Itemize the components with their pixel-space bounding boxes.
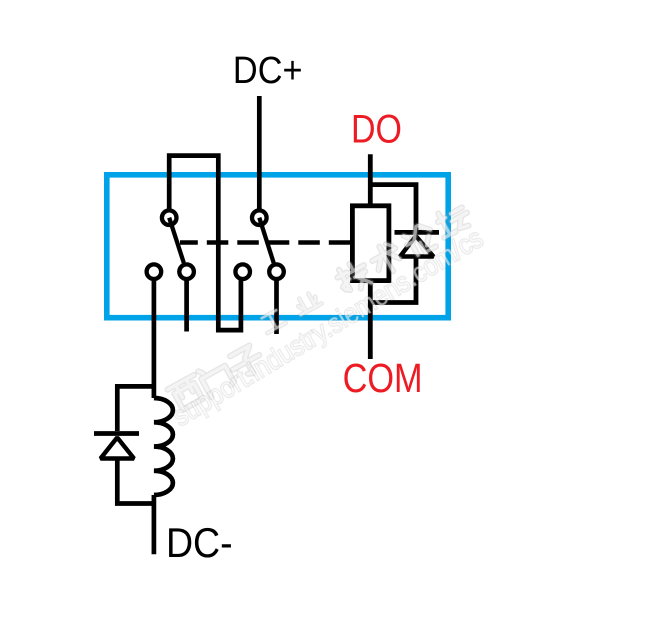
inductor L1 (load coil) [154, 398, 173, 495]
contact circle K1 bottom-right [179, 264, 194, 279]
dashed mechanical linkage [180, 240, 350, 244]
contact circle K2 bottom-left [235, 264, 250, 279]
wire branch to diode D2 [117, 386, 154, 431]
pivot circle K2 [252, 210, 267, 225]
label COM [343, 355, 423, 400]
wire DC+ lead [257, 96, 262, 210]
wire diode D2 bottom [117, 459, 154, 504]
label DC- [166, 520, 233, 566]
wire DO lead [368, 154, 373, 210]
wire stub below contact K1 bottom-right [184, 281, 189, 332]
wire DC- lead [152, 495, 157, 554]
wire branch to diode D1 [370, 185, 416, 233]
relay outline box (blue) [107, 175, 448, 318]
diode D2 cathode bar [94, 431, 139, 436]
wire linkage loop (switch1 pivot to contact 3) [169, 156, 241, 331]
label DC+ [233, 48, 303, 91]
label DO [351, 106, 402, 151]
contact circle K1 bottom-left [147, 264, 162, 279]
relay coil (rectangle) [352, 206, 389, 281]
pivot circle K1 [162, 210, 177, 225]
diode D2 triangle [101, 438, 135, 459]
switch arm K2 [259, 218, 273, 263]
diode D1 triangle [400, 236, 434, 257]
svg-text:DC+: DC+ [233, 48, 303, 91]
svg-text:DC-: DC- [166, 520, 233, 566]
wire from contact K1 bottom-left down to coil [152, 281, 157, 398]
svg-text:DO: DO [351, 106, 402, 151]
wire stub below contact K2 bottom-right [274, 281, 279, 334]
wire diode D1 bottom to coil bottom [370, 256, 416, 303]
diode D1 cathode bar [395, 230, 440, 235]
svg-text:COM: COM [343, 355, 423, 400]
contact circle K2 bottom-right [269, 264, 284, 279]
switch arm K1 [169, 218, 184, 263]
wire COM lead [368, 283, 373, 359]
